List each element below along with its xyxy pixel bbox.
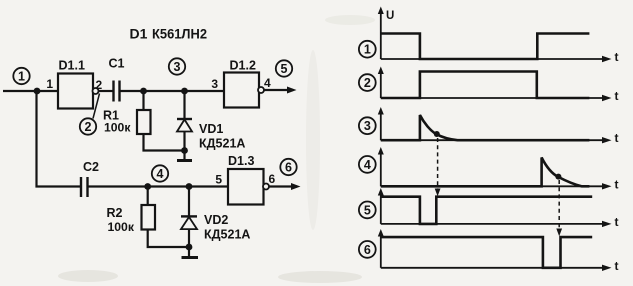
svg-text:6: 6 (285, 161, 292, 175)
svg-text:3: 3 (364, 119, 371, 133)
axis U (waveform 1) (378, 7, 619, 65)
junction input branch (34, 88, 41, 95)
sample dot on waveform 4 (555, 174, 561, 180)
waveform 6 (381, 237, 592, 268)
svg-text:1: 1 (364, 43, 371, 57)
op-amp D1.1 (inverter) (58, 59, 99, 109)
node 4 (diagram) (359, 156, 376, 173)
svg-text:t: t (615, 89, 619, 103)
svg-text:КД521А: КД521А (199, 137, 245, 151)
wire D1.2 output with arrow (264, 87, 297, 94)
junction R2/VD2 bottom (186, 244, 193, 251)
svg-text:U: U (386, 10, 394, 22)
ground (VD2) (182, 247, 199, 258)
node A junction (R1 top) (140, 88, 147, 95)
sample dot on waveform 3 (434, 131, 440, 137)
svg-text:t: t (615, 131, 619, 145)
waveform 4 (RC spike) (381, 158, 590, 187)
capacitor C2 (81, 160, 99, 197)
svg-text:2: 2 (85, 120, 92, 134)
svg-text:2: 2 (364, 76, 371, 90)
axis t (waveform 6) (378, 229, 619, 273)
svg-text:t: t (615, 50, 619, 64)
resistor R1 (103, 91, 151, 135)
svg-text:6: 6 (364, 243, 371, 257)
wire C2 to D1.3 (88, 185, 229, 187)
dashed marker wave4 to wave6 (556, 180, 562, 236)
node 5 (diagram) (359, 202, 376, 219)
wire C1 to D1.2 (120, 90, 225, 92)
svg-text:VD2: VD2 (204, 213, 228, 227)
svg-text:4: 4 (157, 167, 164, 181)
node 6 (280, 159, 296, 175)
wire D1.1 out to C1 (99, 90, 114, 92)
svg-text:1: 1 (18, 70, 25, 84)
svg-text:t: t (615, 215, 619, 229)
svg-text:6: 6 (269, 172, 276, 186)
ground (VD1) (177, 151, 192, 161)
svg-text:D1.3: D1.3 (228, 154, 254, 168)
node 3 (diagram) (359, 117, 376, 134)
svg-text:100к: 100к (108, 220, 135, 234)
svg-text:C1: C1 (109, 57, 125, 71)
node 2 (diagram) (359, 74, 376, 91)
svg-text:R2: R2 (107, 206, 123, 220)
svg-text:5: 5 (281, 62, 288, 76)
junction R2 top (144, 183, 151, 190)
svg-text:3: 3 (211, 77, 218, 91)
node 5 (276, 60, 292, 76)
dashed marker wave3 to wave5 (435, 138, 441, 196)
axis t (waveform 2) (378, 67, 619, 104)
waveform 5 (381, 197, 592, 224)
resistor R2 (107, 187, 156, 235)
op-amp D1.2 (inverter) (224, 59, 264, 108)
wire input to D1.1 (3, 90, 58, 92)
junction VD2 top (186, 183, 193, 190)
svg-text:3: 3 (174, 60, 181, 74)
wire vertical left branch down to row 2 (37, 91, 82, 187)
svg-text:К561ЛН2: К561ЛН2 (152, 26, 207, 42)
node 4 (152, 165, 168, 181)
waveform 3 (RC spike) (381, 115, 590, 140)
op-amp D1.3 (inverter) (228, 154, 269, 205)
wire R1 bottom to VD1 anode (144, 134, 185, 151)
node 2 with leader (80, 94, 100, 135)
wire R2 bottom to VD2 anode (148, 230, 189, 248)
waveform 2 (381, 72, 590, 99)
svg-text:100к: 100к (104, 121, 131, 135)
node 1 (diagram) (359, 41, 376, 58)
axis t (waveform 4) (378, 147, 619, 191)
diode VD2 (181, 187, 250, 248)
svg-text:t: t (615, 259, 619, 273)
svg-text:D1: D1 (130, 26, 148, 42)
svg-text:5: 5 (215, 173, 222, 187)
axis t (waveform 5) (378, 188, 619, 229)
svg-text:C2: C2 (83, 160, 99, 174)
junction R1/VD1 bottom (181, 147, 188, 154)
node B junction (VD1 top) (181, 88, 188, 95)
waveform 1 (381, 34, 590, 60)
svg-text:КД521А: КД521А (204, 228, 250, 242)
svg-text:D1.2: D1.2 (230, 59, 256, 73)
diode VD1 (177, 91, 245, 151)
svg-text:1: 1 (46, 77, 53, 91)
node 3 (169, 58, 185, 74)
wire D1.3 output with arrow (269, 183, 301, 190)
node 6 (diagram) (359, 241, 376, 258)
svg-text:VD1: VD1 (199, 122, 223, 136)
capacitor C1 (109, 57, 125, 102)
axis t (waveform 3) (378, 107, 619, 145)
node 1 (13, 68, 29, 84)
svg-text:t: t (615, 177, 619, 191)
svg-text:4: 4 (364, 158, 371, 172)
svg-text:4: 4 (264, 76, 271, 90)
svg-text:D1.1: D1.1 (59, 59, 85, 73)
svg-text:5: 5 (364, 203, 371, 217)
